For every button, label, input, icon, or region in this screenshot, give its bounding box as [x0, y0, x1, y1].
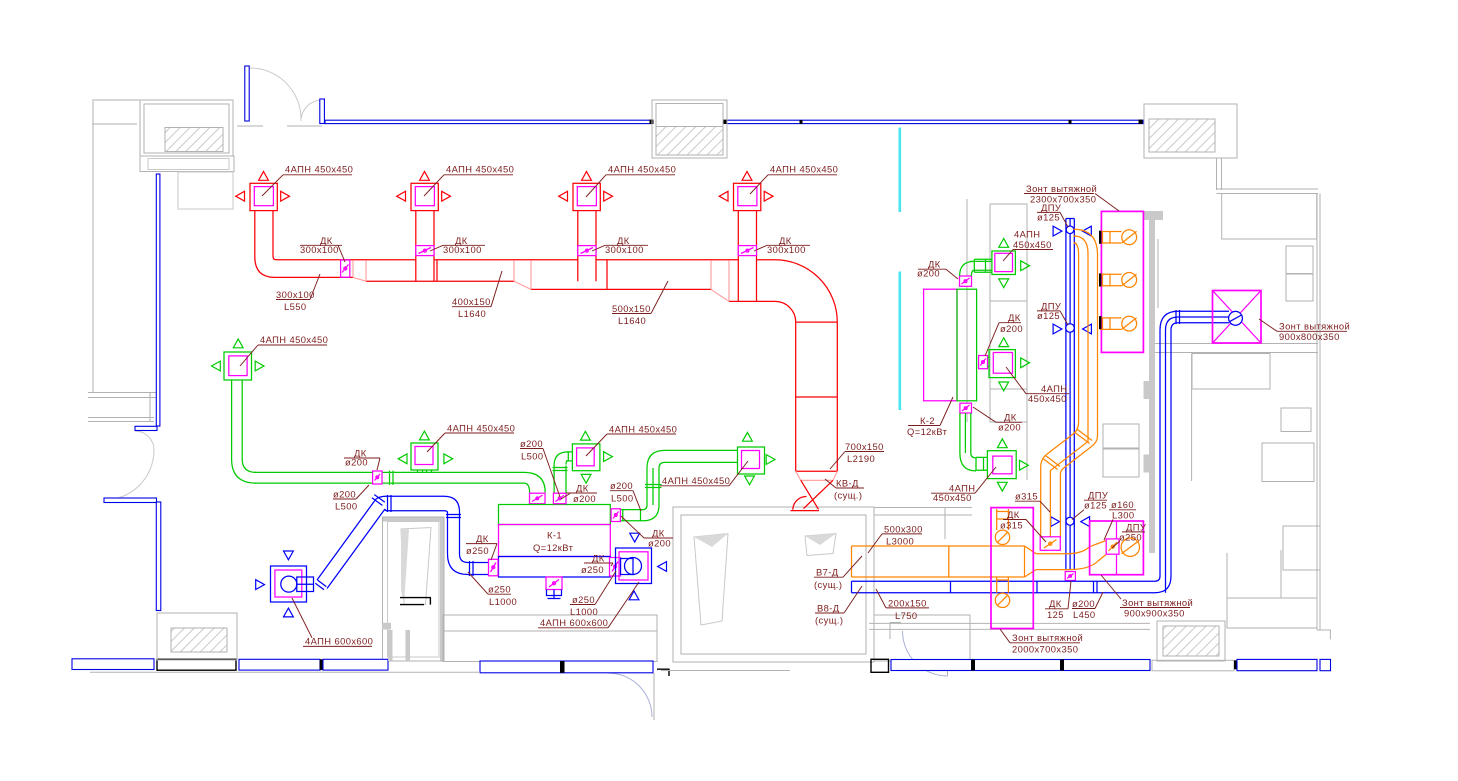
label o200 L500 mid: [520, 438, 560, 497]
label 4APN 450x450 B: [427, 422, 515, 452]
svg-text:500х150: 500х150: [612, 303, 651, 314]
svg-text:ДК: ДК: [476, 533, 489, 544]
svg-text:Зонт вытяжной: Зонт вытяжной: [1026, 183, 1097, 194]
label DPU o250: [1112, 521, 1146, 548]
wall: top wall right segment: [727, 120, 1143, 123]
svg-text:2300х700х350: 2300х700х350: [1030, 194, 1096, 205]
label o200 L500 left: [333, 485, 369, 511]
duct: red vertical duct 700x150: [796, 322, 838, 471]
svg-text:L3000: L3000: [886, 535, 914, 546]
label 4APN 450x450 No.4: [750, 164, 838, 194]
svg-text:125: 125: [1047, 609, 1064, 620]
fan: hood 2000 fan top: [995, 509, 1009, 545]
label 4APN 600x600 No.1: [292, 598, 373, 647]
damper: DK o315 on orange riser: [1040, 537, 1060, 551]
damper: DK in drop No.3: [578, 246, 596, 256]
label o160 L300: [1104, 499, 1136, 540]
svg-text:ДК: ДК: [592, 552, 605, 563]
diffuser: green 4APN TR2 (middle right column): [988, 350, 1016, 378]
duct: orange top elbow west to riser1: [1074, 229, 1098, 255]
svg-text:450х450: 450х450: [1028, 393, 1067, 404]
svg-text:4АПН 450х450: 4АПН 450х450: [608, 164, 676, 175]
wall: dashes under top wall: [237, 125, 322, 127]
svg-text:(сущ.): (сущ.): [814, 579, 842, 590]
label K-2: [907, 397, 953, 437]
wall: left blue wall lower: [104, 498, 157, 503]
fixture: bottom-left hatched box: [157, 613, 237, 660]
label K-1: [533, 530, 574, 554]
label 4APN TR2: [1006, 367, 1069, 404]
label DPU o125 top: [1037, 202, 1068, 227]
label o250 L1000 mid: [570, 571, 616, 617]
label DK o200 K-2 bottom: [973, 407, 1022, 433]
duct: run from K-1 right to diffuser No.6: [620, 450, 737, 520]
label 4APN 450x450 No.3: [586, 164, 676, 197]
unit: K-2 supply unit box: [924, 289, 977, 401]
svg-text:ДК: ДК: [1007, 509, 1020, 520]
svg-text:Q=12кВт: Q=12кВт: [533, 542, 574, 553]
label DK o200 mid: [561, 482, 597, 504]
wall: left blue wall door leaf: [135, 426, 157, 430]
duct: K-2 top elbow to diffuser TR1: [960, 259, 992, 276]
damper: DK below K-1 with stub: [546, 577, 562, 599]
duct: K-2 bottom run to diffuser TR3: [960, 413, 988, 471]
hood: Zont 900x900x350 box: [1090, 521, 1144, 575]
label KV-D: [825, 477, 864, 500]
fixture: right side counters: [1103, 239, 1320, 628]
svg-text:L1640: L1640: [618, 315, 646, 326]
svg-text:ø315: ø315: [1015, 491, 1038, 502]
wall: right side upper walls: [1217, 158, 1319, 194]
svg-text:ø315: ø315: [1000, 519, 1023, 530]
duct: blue kitchen duct 200x150 to B8-D: [852, 581, 1156, 593]
duct: red elbow to south: [775, 260, 837, 322]
svg-text:ø200: ø200: [998, 422, 1021, 433]
svg-text:L1640: L1640: [458, 308, 486, 319]
fitting: DPU o125 circle top: [1066, 226, 1074, 234]
svg-text:4АПН 600х600: 4АПН 600х600: [305, 636, 373, 647]
duct: blue horizontal run and elbow down: [375, 495, 460, 513]
duct: green elbow down into K-1 left damper: [524, 472, 545, 492]
door: bottom center door arc: [608, 673, 652, 717]
fan: hood 2300 fan 2: [1099, 273, 1137, 288]
fixture: bottom-right hatched box: [1157, 621, 1225, 661]
svg-text:700х150: 700х150: [845, 441, 884, 452]
svg-text:L300: L300: [1112, 510, 1134, 521]
label 4APN 600x600 No.2: [538, 582, 639, 628]
svg-text:Q=12кВт: Q=12кВт: [907, 426, 948, 437]
wall: center room top: [874, 508, 972, 540]
svg-text:ø200: ø200: [1000, 323, 1023, 334]
label DK 300x100 No.1: [300, 235, 345, 262]
damper: DK o250 between K-1 and fan No.2: [610, 558, 621, 577]
svg-text:L2190: L2190: [847, 453, 875, 464]
svg-text:L750: L750: [895, 610, 917, 621]
duct: red duct segment divider: [437, 260, 607, 290]
svg-text:ø125: ø125: [1084, 500, 1107, 511]
duct: orange riser with diagonal jog: [1041, 254, 1098, 538]
svg-text:4АПН 450х450: 4АПН 450х450: [260, 334, 328, 345]
duct: red main duct top line: [277, 259, 776, 261]
wall: left blue wall upper: [156, 174, 160, 426]
label 4APN 450x450 No.6: [660, 461, 748, 486]
svg-text:450х450: 450х450: [1013, 239, 1052, 250]
duct: green drop from diffuser A and elbow west: [232, 380, 256, 483]
label Zont 2000x700x350: [1000, 629, 1083, 654]
damper: DK on K-1 top left: [530, 493, 546, 504]
svg-text:ø250: ø250: [572, 594, 595, 605]
wall: top-right shaft box: [1144, 104, 1237, 158]
duct: blue vertical segment and elbow east: [446, 512, 489, 576]
label 4APN 450x450 No.5: [586, 423, 677, 456]
hood: Zont 2300x700x350 box: [1101, 211, 1143, 352]
svg-text:ø200: ø200: [520, 438, 543, 449]
damper: DK on K-2 bottom: [960, 403, 972, 413]
label DK 300x100 No.2: [430, 235, 485, 255]
svg-text:ДК: ДК: [1008, 312, 1021, 323]
svg-text:ø250: ø250: [466, 545, 489, 556]
svg-text:L550: L550: [284, 301, 306, 312]
label DK o315: [1000, 509, 1046, 542]
svg-text:450х450: 450х450: [933, 492, 972, 503]
svg-text:(сущ.): (сущ.): [815, 615, 843, 626]
label DK 300x100 No.3: [592, 235, 648, 255]
diffuser: green 4APN A (top-left): [224, 352, 252, 380]
room: storage closet with door: [382, 517, 444, 661]
label V7-D: [814, 556, 862, 590]
fan: hood 2300 fan 1: [1099, 230, 1137, 245]
label DK o200 green run: [344, 447, 380, 470]
diffuser: red 4APN No.2: [411, 183, 438, 281]
svg-text:L500: L500: [335, 500, 357, 511]
diffuser: green 4APN TR1 (top right column): [992, 251, 1016, 275]
wall: top wall left segment: [325, 120, 651, 123]
wall: top-left door jambs (blue): [245, 66, 249, 121]
damper: DK in drop No.4: [738, 246, 756, 256]
svg-text:ø250: ø250: [581, 564, 604, 575]
label DK o250 left: [466, 533, 497, 560]
svg-text:4АПН 450х450: 4АПН 450х450: [447, 422, 515, 433]
svg-text:900х800х350: 900х800х350: [1279, 331, 1340, 342]
svg-text:В7-Д: В7-Д: [816, 567, 839, 578]
damper: DK in drop No.2: [416, 246, 434, 256]
damper: DK on K-1 top (second): [553, 493, 566, 504]
damper: DK on K-1 right: [611, 509, 620, 522]
svg-text:В8-Д: В8-Д: [817, 602, 840, 613]
fan: 4APN 600x600 No.2: [616, 548, 652, 584]
duct: riser from K-1 top to diffuser No.5: [553, 452, 573, 493]
svg-text:300х100: 300х100: [276, 289, 315, 300]
diffuser: green 4APN B (over duct): [411, 443, 438, 472]
wall: left corridor: [88, 393, 156, 422]
wall: building right edge: [1317, 194, 1330, 640]
label 500x300 L3000: [868, 523, 923, 553]
svg-text:L500: L500: [611, 493, 633, 504]
duct: green main horizontal run: [254, 471, 524, 485]
label DPU o125 mid: [1037, 300, 1068, 325]
label 4APN 450x450 No.1: [262, 164, 353, 196]
label DK o200 TR2: [985, 312, 1023, 356]
svg-text:ø250: ø250: [488, 584, 511, 595]
duct: red main duct bottom line with transitions: [275, 277, 775, 301]
damper: DK o200 in green run: [373, 471, 382, 484]
label Zont 2300x700x350: [1024, 183, 1119, 211]
label 4APN 450x450 No.2: [424, 164, 514, 196]
duct: orange reducer elbow up to DPU: [1068, 541, 1106, 570]
wall: bottom-left segments: [72, 630, 790, 676]
duct: orange duct 500x300 L3000: [852, 546, 1025, 577]
door: top-left double door arcs: [250, 68, 322, 121]
svg-text:КВ-Д: КВ-Д: [836, 477, 859, 488]
svg-text:400х150: 400х150: [452, 296, 491, 307]
fixture: kitchen island: [967, 199, 1027, 480]
damper: DK 125 on riser 1: [1065, 572, 1075, 581]
label DK o250 right: [581, 552, 613, 575]
unit: K-1 supply unit box: [499, 505, 611, 578]
svg-text:L1000: L1000: [489, 596, 517, 607]
svg-text:4АПН 450х450: 4АПН 450х450: [609, 423, 677, 434]
door: kitchen door arc: [903, 631, 948, 676]
svg-text:ø200: ø200: [573, 493, 596, 504]
svg-text:L450: L450: [1073, 609, 1095, 620]
fan: hood 900 fan circle: [1121, 538, 1139, 556]
label 4APN TR3: [931, 467, 996, 503]
svg-text:500х300: 500х300: [884, 523, 923, 534]
duct: blue diagonal from fan No.1: [315, 495, 385, 590]
svg-text:ø200: ø200: [610, 480, 633, 491]
svg-text:L1000: L1000: [570, 606, 598, 617]
duct: blue riser 2 to hood 900x800: [1155, 310, 1229, 593]
wall: left building edge: [92, 100, 140, 392]
svg-text:Зонт вытяжной: Зонт вытяжной: [1012, 632, 1083, 643]
svg-text:ДК: ДК: [1049, 598, 1062, 609]
svg-text:4АПН 450х450: 4АПН 450х450: [770, 164, 838, 175]
svg-text:ø200: ø200: [333, 488, 356, 499]
damper: DK o200 to diffuser TR2: [979, 356, 988, 369]
label Zont 900x900x350: [1101, 575, 1193, 618]
svg-text:900х900х350: 900х900х350: [1124, 607, 1185, 618]
svg-text:(сущ.): (сущ.): [834, 489, 862, 500]
diffuser: green 4APN TR3 (bottom right column): [987, 451, 1016, 479]
damper: DK 300x100 in red duct: [341, 260, 350, 277]
svg-text:ø250: ø250: [1119, 531, 1142, 542]
label DK o200 K-2 top: [917, 259, 958, 279]
svg-text:2000х700х350: 2000х700х350: [1012, 643, 1078, 654]
label V8-D: [815, 586, 862, 626]
label DK 125: [1045, 581, 1071, 620]
svg-text:4АПН 450х450: 4АПН 450х450: [662, 475, 730, 486]
fan: hood 2300 fan 3: [1099, 316, 1137, 331]
svg-text:ø200: ø200: [648, 537, 671, 548]
svg-text:К-1: К-1: [547, 530, 562, 541]
svg-text:ø160: ø160: [1111, 499, 1134, 510]
label 300x100 L550: [276, 274, 320, 312]
svg-text:ø200: ø200: [1072, 598, 1095, 609]
label o200 L500 right: [610, 480, 641, 511]
duct: orange transition and round duct o315: [1025, 546, 1069, 577]
label 4APN TR1: [1003, 228, 1053, 261]
label o315: [1015, 491, 1050, 512]
label 200x150 L750: [876, 589, 929, 621]
wall: top window shaft box: [652, 100, 727, 158]
svg-text:L500: L500: [521, 450, 543, 461]
fitting: DPU o125 circle bottom: [1066, 517, 1074, 525]
label 500x150 L1640: [612, 281, 668, 326]
damper: DPU o250 in hood: [1106, 539, 1119, 554]
duct: blue riser 1 (kitchen island exhaust): [1066, 219, 1074, 571]
label DPU o125 bottom: [1072, 490, 1108, 520]
label o200 L450: [1072, 592, 1103, 620]
damper: DK o250 before K-1: [489, 559, 499, 576]
wall: right corridor double line: [1153, 344, 1318, 353]
axis: cyan line: [898, 128, 901, 411]
svg-text:К-2: К-2: [920, 415, 935, 426]
diffuser: green 4APN No.5: [572, 444, 600, 471]
hood: Zont 900x800x350 with fan: [1213, 291, 1262, 344]
label 400x150 L1640: [452, 271, 502, 319]
duct: transition to KV-D fan: [796, 471, 838, 480]
svg-text:Зонт вытяжной: Зонт вытяжной: [1279, 321, 1350, 332]
wall: bottom-right segments: [871, 659, 1331, 672]
wall: thick interior wall right: [1149, 212, 1155, 553]
room: vestibule walls: [673, 507, 874, 662]
wall: top-left equipment room: [140, 100, 234, 209]
svg-text:ø125: ø125: [1037, 310, 1060, 321]
diffuser: red 4APN No.4: [734, 183, 761, 301]
label DK o200 K-1 right: [621, 516, 673, 548]
label 4APN 450x450 green A: [240, 334, 328, 366]
fan: KV-D existing exhaust funnel: [791, 480, 834, 510]
label Zont 900x800x350: [1259, 319, 1350, 342]
label o250 L1000 left: [468, 572, 517, 607]
fixture: bottom center counter band: [443, 613, 970, 662]
svg-text:ø125: ø125: [1037, 211, 1060, 222]
fitting: DPU o125 circle middle: [1066, 324, 1075, 333]
svg-text:4АПН: 4АПН: [1014, 228, 1040, 239]
hood: Zont 2000x700x350 box: [991, 508, 1033, 629]
svg-text:4АПН 450х450: 4АПН 450х450: [446, 164, 514, 175]
diffuser: red 4APN No.1: [250, 183, 277, 277]
damper: DK on K-2 top: [960, 276, 972, 286]
svg-text:200х150: 200х150: [888, 597, 927, 608]
label DK 300x100 No.4: [754, 235, 810, 255]
svg-text:4АПН 600х600: 4АПН 600х600: [540, 617, 608, 628]
fan: hood 2000 fan bottom: [995, 578, 1009, 608]
label 700x150 L2190: [830, 441, 884, 469]
svg-text:4АПН 450х450: 4АПН 450х450: [285, 164, 353, 175]
fan: 4APN 600x600 No.1: [271, 566, 314, 602]
diffuser: green 4APN No.6: [738, 447, 765, 474]
svg-text:ДК: ДК: [576, 482, 589, 493]
door: left double door arcs: [104, 431, 154, 500]
svg-text:Зонт вытяжной: Зонт вытяжной: [1122, 597, 1193, 608]
wall: kitchen bottom thick band: [869, 623, 1150, 629]
diffuser: red 4APN No.3: [573, 183, 600, 281]
